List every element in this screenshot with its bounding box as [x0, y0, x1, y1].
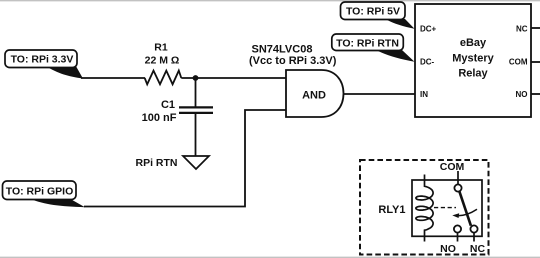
label eBay Mystery Relay: [452, 37, 494, 80]
callout TO: RPi 3.3V: [5, 50, 83, 79]
callout TO: RPi GPIO: [3, 181, 86, 207]
callout TO: RPi 5V: [341, 2, 415, 29]
callout TO: RPi RTN: [332, 34, 415, 62]
svg-text:NC: NC: [516, 24, 528, 33]
svg-text:NO: NO: [440, 243, 456, 255]
pin stub COM: [531, 61, 540, 63]
svg-text:TO: RPi 3.3V: TO: RPi 3.3V: [11, 54, 74, 66]
svg-text:RLY1: RLY1: [378, 204, 405, 216]
dashed actuation line: [434, 207, 456, 209]
wire: AND output to relay IN: [344, 93, 416, 95]
svg-text:Mystery: Mystery: [452, 52, 494, 64]
svg-text:TO: RPi 5V: TO: RPi 5V: [346, 6, 400, 18]
wire: NO stub: [457, 233, 459, 242]
ground RPi RTN symbol: [183, 156, 209, 169]
arrow actuation: [452, 209, 477, 218]
op-amp U1 AND gate SN74LVC08: [286, 70, 344, 117]
svg-text:C1: C1: [161, 99, 175, 111]
contact NO: [454, 225, 461, 232]
svg-text:TO: RPi GPIO: TO: RPi GPIO: [6, 185, 73, 197]
switch arm: [459, 191, 471, 225]
wire: 3.3V callout to resistor: [81, 77, 145, 79]
relay module box: [415, 4, 531, 117]
svg-text:AND: AND: [302, 90, 326, 102]
relay inner box: [412, 180, 482, 236]
contact COM: [454, 184, 461, 191]
svg-text:NC: NC: [470, 243, 486, 255]
wire: capacitor to ground: [195, 114, 197, 156]
svg-text:Relay: Relay: [458, 68, 488, 80]
svg-text:eBay: eBay: [460, 37, 487, 49]
relay detail dashed box: [360, 160, 489, 255]
wire: COM stub: [457, 171, 459, 184]
svg-text:COM: COM: [440, 161, 465, 173]
wire: NC stub: [473, 233, 475, 242]
wire: GPIO callout to AND gate input B: [84, 110, 286, 207]
bottom border artifact: [0, 256, 540, 258]
svg-text:NO: NO: [516, 90, 528, 99]
svg-text:DC+: DC+: [420, 24, 437, 33]
top border artifact: [0, 0, 540, 2]
resistor R1: [145, 71, 182, 85]
svg-text:22 M Ω: 22 M Ω: [145, 55, 180, 67]
svg-text:DC-: DC-: [420, 58, 435, 67]
svg-text:IN: IN: [420, 90, 428, 99]
capacitor C1: [179, 107, 213, 113]
contact NC: [470, 225, 477, 232]
svg-text:R1: R1: [154, 42, 168, 54]
pin stub NO: [531, 93, 540, 95]
svg-text:(Vcc to RPi 3.3V): (Vcc to RPi 3.3V): [249, 55, 337, 67]
coil RLY1: [416, 175, 433, 242]
svg-text:100 nF: 100 nF: [142, 112, 177, 124]
pin stub NC: [531, 27, 540, 29]
svg-text:COM: COM: [509, 58, 528, 67]
wire: resistor to AND gate input A: [181, 77, 286, 79]
wire: junction down to capacitor: [195, 78, 197, 107]
svg-text:SN74LVC08: SN74LVC08: [252, 44, 313, 56]
svg-text:RPi RTN: RPi RTN: [136, 157, 178, 169]
node junction dot: [193, 75, 199, 81]
svg-text:TO: RPi RTN: TO: RPi RTN: [336, 37, 399, 49]
